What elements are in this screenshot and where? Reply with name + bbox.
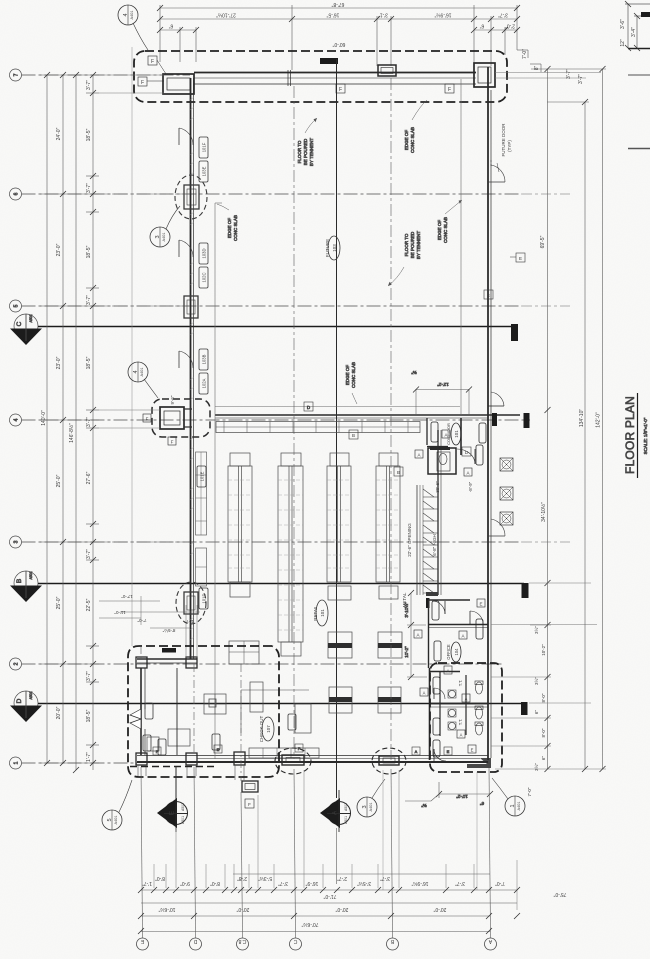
jut top wall [137, 658, 197, 660]
svg-text:3½": 3½" [533, 677, 539, 685]
oval room labels [316, 600, 328, 626]
svg-text:10'-2": 10'-2" [456, 794, 468, 799]
svg-text:107: 107 [266, 725, 271, 733]
svg-text:3'-7": 3'-7" [578, 74, 584, 84]
svg-text:A401: A401 [162, 233, 166, 242]
svg-text:5: 5 [14, 304, 20, 307]
svg-text:CONC SLAB: CONC SLAB [351, 362, 356, 388]
toilet top wall [429, 671, 460, 673]
svg-text:A501: A501 [181, 803, 185, 811]
grid line 2 [22, 663, 503, 665]
detail black block [641, 12, 650, 17]
grid bubble C.8 [237, 938, 249, 950]
left dim texts [41, 80, 92, 762]
counter box B [378, 632, 402, 658]
detail dim line 3'-6" [627, 4, 629, 48]
svg-text:A501: A501 [29, 691, 33, 699]
grid bubble D [190, 938, 202, 950]
svg-text:CORRIDOR: CORRIDOR [446, 423, 451, 445]
svg-text:B: B [397, 470, 400, 475]
svg-text:3: 3 [155, 235, 161, 238]
D box tag on slab line [304, 402, 313, 411]
ticks [545, 622, 551, 772]
svg-text:24'-0": 24'-0" [56, 127, 62, 140]
svg-text:A501: A501 [29, 571, 33, 579]
left wall fixture band [196, 452, 207, 586]
section line A [336, 59, 338, 798]
svg-text:7'-0": 7'-0" [527, 787, 532, 796]
svg-text:16'-9¾": 16'-9¾" [411, 880, 428, 886]
svg-text:17'-0": 17'-0" [121, 594, 133, 599]
svg-text:3'-7": 3'-7" [86, 183, 92, 193]
svg-text:3'-7": 3'-7" [86, 80, 92, 90]
grid bubble C [290, 938, 302, 950]
checkout row band [249, 748, 319, 758]
corner column top-right [474, 63, 495, 87]
title underline [637, 393, 639, 478]
section marker D [14, 691, 38, 715]
svg-text:71'-0": 71'-0" [323, 893, 336, 899]
slab edge vertical left [214, 203, 216, 759]
grid line D vertical [194, 767, 196, 938]
section marker A bottom [320, 790, 351, 832]
section line C [38, 326, 515, 328]
svg-text:E: E [471, 748, 474, 753]
svg-text:25'-0": 25'-0" [56, 474, 62, 487]
A/E box tags [414, 599, 485, 639]
toilet block left wall [429, 668, 431, 760]
svg-text:69'-5": 69'-5" [540, 235, 546, 248]
svg-text:3'-5½": 3'-5½" [357, 880, 371, 887]
svg-text:3: 3 [14, 540, 20, 543]
jut mini dimension lines [99, 596, 200, 658]
fan 2 [500, 487, 513, 500]
bottom dim texts [142, 875, 567, 928]
detail lower line [628, 74, 650, 76]
svg-text:101: 101 [320, 609, 325, 617]
grid dash extensions past right wall [522, 194, 571, 542]
svg-text:A: A [447, 669, 450, 674]
svg-text:67'-8": 67'-8" [331, 1, 344, 7]
svg-text:4: 4 [133, 370, 139, 373]
svg-text:F: F [448, 87, 451, 93]
svg-text:27'-10½": 27'-10½" [216, 12, 236, 19]
ramp side walls [416, 485, 418, 595]
svg-text:EDGE OF: EDGE OF [404, 130, 409, 151]
black hook on 415 wall [492, 413, 497, 426]
svg-text:1: 1 [510, 804, 516, 807]
left exterior wall [190, 78, 192, 659]
svg-text:E: E [479, 602, 482, 607]
counter box A [328, 632, 352, 658]
svg-text:3'-7": 3'-7" [86, 671, 92, 681]
storefront mullions bottom [282, 755, 304, 765]
svg-text:142'-0": 142'-0" [596, 412, 602, 428]
extension lines right [491, 624, 597, 626]
extension pair to left dims [99, 409, 160, 411]
svg-text:10'-6½": 10'-6½" [158, 906, 175, 913]
svg-text:F: F [248, 802, 251, 807]
left dim tick marks [44, 72, 96, 773]
ramp treads with hatch [423, 489, 438, 593]
svg-text:EDGE OF: EDGE OF [437, 220, 442, 241]
svg-text:A401: A401 [114, 816, 118, 825]
svg-text:16'-9½": 16'-9½" [434, 12, 451, 19]
svg-text:3'-7": 3'-7" [455, 880, 465, 886]
detail heavy base line [628, 48, 650, 50]
top chain overall 67'-8" [160, 7, 517, 9]
counter box C [329, 687, 352, 713]
svg-text:1'-7": 1'-7" [86, 752, 92, 762]
svg-text:⅜": ⅜" [411, 370, 417, 375]
office left mini dim chain [407, 590, 427, 680]
svg-text:140'-0": 140'-0" [41, 410, 47, 426]
B tag box mid [349, 430, 358, 439]
dim line 18'-5"/3'-7" chain [92, 75, 94, 770]
window mullion box 3 [184, 592, 198, 614]
callout 3/A401 mid-left [150, 206, 180, 247]
svg-text:FLOOR PLAN: FLOOR PLAN [623, 396, 637, 474]
bottom connect [495, 768, 606, 770]
dim line 146'-8.5" [75, 75, 77, 770]
svg-text:⅜": ⅜" [421, 803, 427, 808]
door arc on right wall y390 [491, 392, 504, 406]
dashed outline [430, 663, 502, 772]
grid bubble 4 [10, 414, 22, 426]
svg-text:101E: 101E [200, 471, 205, 481]
dashed outline [128, 646, 279, 777]
storefront mullion ticks [288, 70, 291, 86]
svg-text:103: 103 [332, 244, 337, 252]
small tags above bottom wall [153, 744, 452, 755]
grid line 7 [22, 74, 191, 76]
canopy post below wall [242, 781, 258, 792]
svg-text:101F: 101F [202, 142, 207, 152]
janitor room walls [428, 448, 456, 474]
grid line E vertical [141, 767, 143, 938]
svg-text:2: 2 [14, 662, 20, 665]
bottom dim chain 2 [141, 902, 517, 904]
svg-text:6": 6" [169, 23, 174, 29]
grid bubble 3 [10, 536, 22, 548]
door leaf+arc 3 [178, 351, 180, 368]
svg-text:CONC SLAB: CONC SLAB [410, 127, 415, 153]
svg-text:A501: A501 [181, 816, 185, 824]
svg-text:T.T.: T.T. [458, 719, 463, 726]
F tag at vestibule [148, 56, 157, 65]
svg-text:22'-5": 22'-5" [86, 598, 92, 611]
svg-text:8'-0": 8'-0" [210, 880, 220, 886]
fan 3 [500, 512, 513, 525]
callout 3/A401 bottom [357, 779, 385, 817]
svg-text:5: 5 [107, 818, 113, 821]
grid bubble 5 [10, 300, 22, 312]
black signage bar [162, 648, 176, 653]
svg-text:C: C [293, 938, 297, 944]
bottom grid bubbles [137, 938, 497, 950]
top corner connect [531, 68, 606, 70]
svg-text:18'-5": 18'-5" [86, 245, 92, 258]
grid bubble 7 [10, 69, 22, 81]
window mullion box 2 [184, 296, 198, 318]
svg-text:A: A [466, 471, 469, 476]
bottom dim chain 4 [141, 931, 490, 933]
long counter left [250, 682, 263, 712]
office tags [432, 601, 483, 661]
right dim 69'-5"/34'-10.5" line [547, 69, 549, 769]
svg-text:A501: A501 [344, 816, 348, 824]
svg-text:6": 6" [541, 756, 546, 761]
ticks [545, 66, 606, 772]
section marker E bottom [157, 790, 188, 832]
svg-text:11'-0": 11'-0" [114, 610, 126, 615]
svg-text:134'-10": 134'-10" [579, 409, 585, 428]
right dim 134'-10" [584, 102, 586, 769]
svg-text:SCALE: 1/8"=1'-0": SCALE: 1/8"=1'-0" [643, 417, 648, 454]
svg-text:3'-4": 3'-4" [631, 27, 637, 37]
texts [540, 74, 602, 522]
svg-text:6: 6 [14, 192, 20, 195]
vestibule outer box [160, 407, 184, 429]
svg-text:8'-0": 8'-0" [155, 875, 165, 881]
grid bubble B [387, 938, 399, 950]
callout 1/A401 bottom-right [492, 778, 525, 816]
12'-2" dim bracket above wall [413, 387, 472, 415]
svg-text:23'-0": 23'-0" [56, 356, 62, 369]
extensions [491, 625, 551, 746]
rack 4 [376, 466, 400, 582]
column stubs below wall [138, 765, 244, 780]
section A line extension below [336, 828, 338, 884]
room tags [431, 422, 486, 465]
svg-text:4: 4 [123, 13, 129, 16]
office left wall [428, 600, 430, 668]
svg-text:B: B [16, 579, 23, 583]
wall stud ticks [190, 97, 194, 640]
rack 1 [228, 466, 252, 582]
svg-text:18'-5": 18'-5" [86, 709, 92, 722]
slab edge vertical right [460, 79, 462, 415]
svg-text:A401: A401 [130, 11, 134, 20]
svg-text:D: D [193, 938, 197, 944]
office doors [432, 601, 445, 614]
top chain 3 segments [160, 29, 196, 31]
right exterior wall [487, 67, 489, 760]
svg-text:6": 6" [480, 801, 485, 806]
grid bubble 1 [10, 757, 22, 769]
svg-text:3'-1": 3'-1" [378, 12, 388, 18]
svg-text:25'-0": 25'-0" [56, 596, 62, 609]
svg-text:A: A [332, 810, 339, 815]
svg-text:7: 7 [14, 73, 20, 76]
service desk cluster [204, 694, 226, 714]
fan 1 [500, 458, 513, 471]
svg-text:103D: 103D [202, 248, 207, 258]
svg-text:C: C [16, 321, 23, 326]
grid line 3 [22, 541, 523, 543]
E tag on right wall [516, 253, 525, 262]
svg-text:CONC SLAB: CONC SLAB [443, 217, 448, 243]
black bar section A top [320, 58, 338, 64]
svg-text:A501: A501 [29, 314, 33, 322]
fixture band rect [216, 422, 420, 433]
svg-text:E: E [169, 810, 176, 815]
svg-text:27'-6": 27'-6" [86, 471, 92, 484]
wall extension lines to right dims [495, 72, 601, 74]
dim line 140'-0" [46, 75, 48, 763]
svg-text:CONC SLAB: CONC SLAB [233, 215, 238, 241]
svg-text:A: A [460, 733, 463, 738]
svg-text:22'-6" OPENING: 22'-6" OPENING [407, 523, 412, 557]
office bottom wall [428, 624, 488, 626]
svg-text:103B: 103B [202, 354, 207, 364]
svg-text:9'-6": 9'-6" [170, 395, 175, 404]
grid line 5 [22, 305, 523, 307]
black bar right of dividing wall [521, 702, 528, 715]
svg-text:E: E [519, 256, 522, 261]
A box tags [415, 430, 472, 476]
svg-text:20'-0": 20'-0" [433, 906, 446, 912]
rack 2 [278, 466, 303, 642]
slab edge line y406 [215, 406, 460, 408]
svg-text:F: F [339, 87, 342, 93]
future door text [501, 123, 512, 157]
window mullion box 1 [184, 185, 199, 209]
svg-text:34'-10½": 34'-10½" [540, 502, 547, 522]
svg-text:3'-6": 3'-6" [620, 19, 626, 29]
svg-text:3'-10½": 3'-10½" [403, 602, 409, 618]
svg-text:BY TENNENT: BY TENNENT [309, 138, 314, 167]
svg-text:A401: A401 [517, 802, 521, 811]
service boxes between racks [229, 641, 259, 664]
svg-text:3½": 3½" [533, 763, 539, 771]
svg-text:3'-7": 3'-7" [498, 12, 508, 18]
svg-text:8'-5½": 8'-5½" [162, 628, 175, 634]
svg-text:F: F [171, 440, 174, 445]
top-left vestibule box [163, 74, 194, 94]
svg-text:4: 4 [14, 418, 20, 421]
svg-text:3½": 3½" [533, 626, 539, 634]
svg-text:(TYP): (TYP) [507, 140, 512, 152]
detail dim line 3'-4" [636, 16, 638, 48]
svg-text:3'-7": 3'-7" [86, 417, 92, 427]
toilet fixtures [448, 681, 483, 735]
svg-text:A401: A401 [140, 368, 144, 377]
dim line bays [62, 75, 64, 763]
svg-text:BY TENNENT: BY TENNENT [416, 231, 421, 260]
svg-text:1: 1 [14, 761, 20, 764]
canopy fascia dashed inner [130, 766, 215, 768]
right dim 142'-0" [602, 69, 604, 769]
mullion box at grid B [378, 65, 396, 76]
svg-text:3'-7": 3'-7" [380, 875, 390, 881]
door leaf+arc 1 [178, 128, 180, 145]
svg-text:B: B [352, 433, 355, 438]
callout 4/A401 top [118, 5, 148, 50]
extension from B/D lines [529, 582, 591, 584]
top tick marks [157, 5, 520, 33]
jut columns top [136, 657, 147, 668]
section line D [38, 703, 524, 705]
svg-text:A: A [416, 633, 419, 638]
storefront wall band [194, 72, 476, 74]
svg-text:75'-0": 75'-0" [553, 891, 566, 897]
grid line C2 vertical [241, 792, 243, 938]
svg-text:A401: A401 [369, 803, 373, 812]
top extension verticals [159, 5, 161, 62]
future door arc 1 [491, 165, 505, 182]
short extension verticals [154, 770, 517, 910]
svg-text:F: F [146, 417, 149, 422]
ramp texts [402, 523, 437, 608]
svg-text:101D: 101D [202, 593, 207, 603]
edge of conc slab note 4 [345, 362, 356, 388]
svg-text:9'-0": 9'-0" [180, 880, 190, 886]
office top wall [428, 599, 470, 601]
ramp black bar [426, 598, 430, 608]
svg-text:2'-8": 2'-8" [237, 875, 247, 881]
svg-text:20'-0": 20'-0" [56, 706, 62, 719]
svg-text:7'-0": 7'-0" [137, 618, 146, 623]
svg-text:20'-0": 20'-0" [236, 906, 249, 912]
grid bubble E [137, 938, 149, 950]
svg-text:A: A [415, 749, 418, 754]
svg-text:8'-0": 8'-0" [541, 693, 546, 702]
bottom dim chain 0 [233, 873, 490, 875]
svg-text:146'-8½": 146'-8½" [68, 423, 75, 443]
rack 3 [327, 466, 351, 582]
section line B [38, 583, 524, 585]
svg-text:6": 6" [534, 710, 539, 715]
small hook 7'-0" [517, 49, 528, 51]
svg-text:60'-0": 60'-0" [332, 41, 345, 47]
corridor walls [426, 418, 428, 445]
bottom exterior wall [137, 755, 488, 757]
section marker C [14, 314, 38, 338]
texts [527, 626, 546, 797]
svg-text:12'-2": 12'-2" [437, 382, 449, 387]
counter box D [378, 687, 401, 713]
bottom dim chain 3 [141, 915, 490, 917]
svg-text:103E: 103E [202, 166, 207, 176]
svg-text:70'-6½": 70'-6½" [301, 921, 318, 928]
ramp end wall [426, 592, 438, 596]
svg-text:10'-2": 10'-2" [541, 644, 546, 656]
svg-text:10'-2": 10'-2" [404, 646, 409, 658]
svg-text:FUTURE: FUTURE [325, 239, 330, 257]
bottom tick marks [138, 887, 520, 934]
vestibule dashed canopy [152, 399, 210, 437]
future door arc 2 [491, 519, 505, 536]
corridor door arc [457, 449, 475, 464]
door leaf+arc 2 [178, 240, 180, 257]
svg-text:F: F [141, 80, 144, 86]
svg-text:1'-7": 1'-7" [142, 880, 152, 886]
callout 4/A401 mid-left2 [128, 362, 158, 398]
svg-text:EDGE OF: EDGE OF [227, 218, 232, 239]
svg-text:18'-5": 18'-5" [86, 356, 92, 369]
svg-text:20'-0": 20'-0" [335, 906, 348, 912]
svg-text:102A: 102A [202, 378, 207, 388]
dividing wall between restrooms [430, 703, 488, 705]
svg-text:6": 6" [480, 23, 485, 29]
svg-text:BE POURED: BE POURED [410, 231, 415, 258]
svg-text:102C: 102C [202, 272, 207, 282]
svg-text:3: 3 [362, 805, 368, 808]
svg-text:2'-0": 2'-0" [505, 23, 515, 29]
slab edge stub top [215, 202, 222, 204]
long thin site line x=132 [131, 47, 133, 646]
